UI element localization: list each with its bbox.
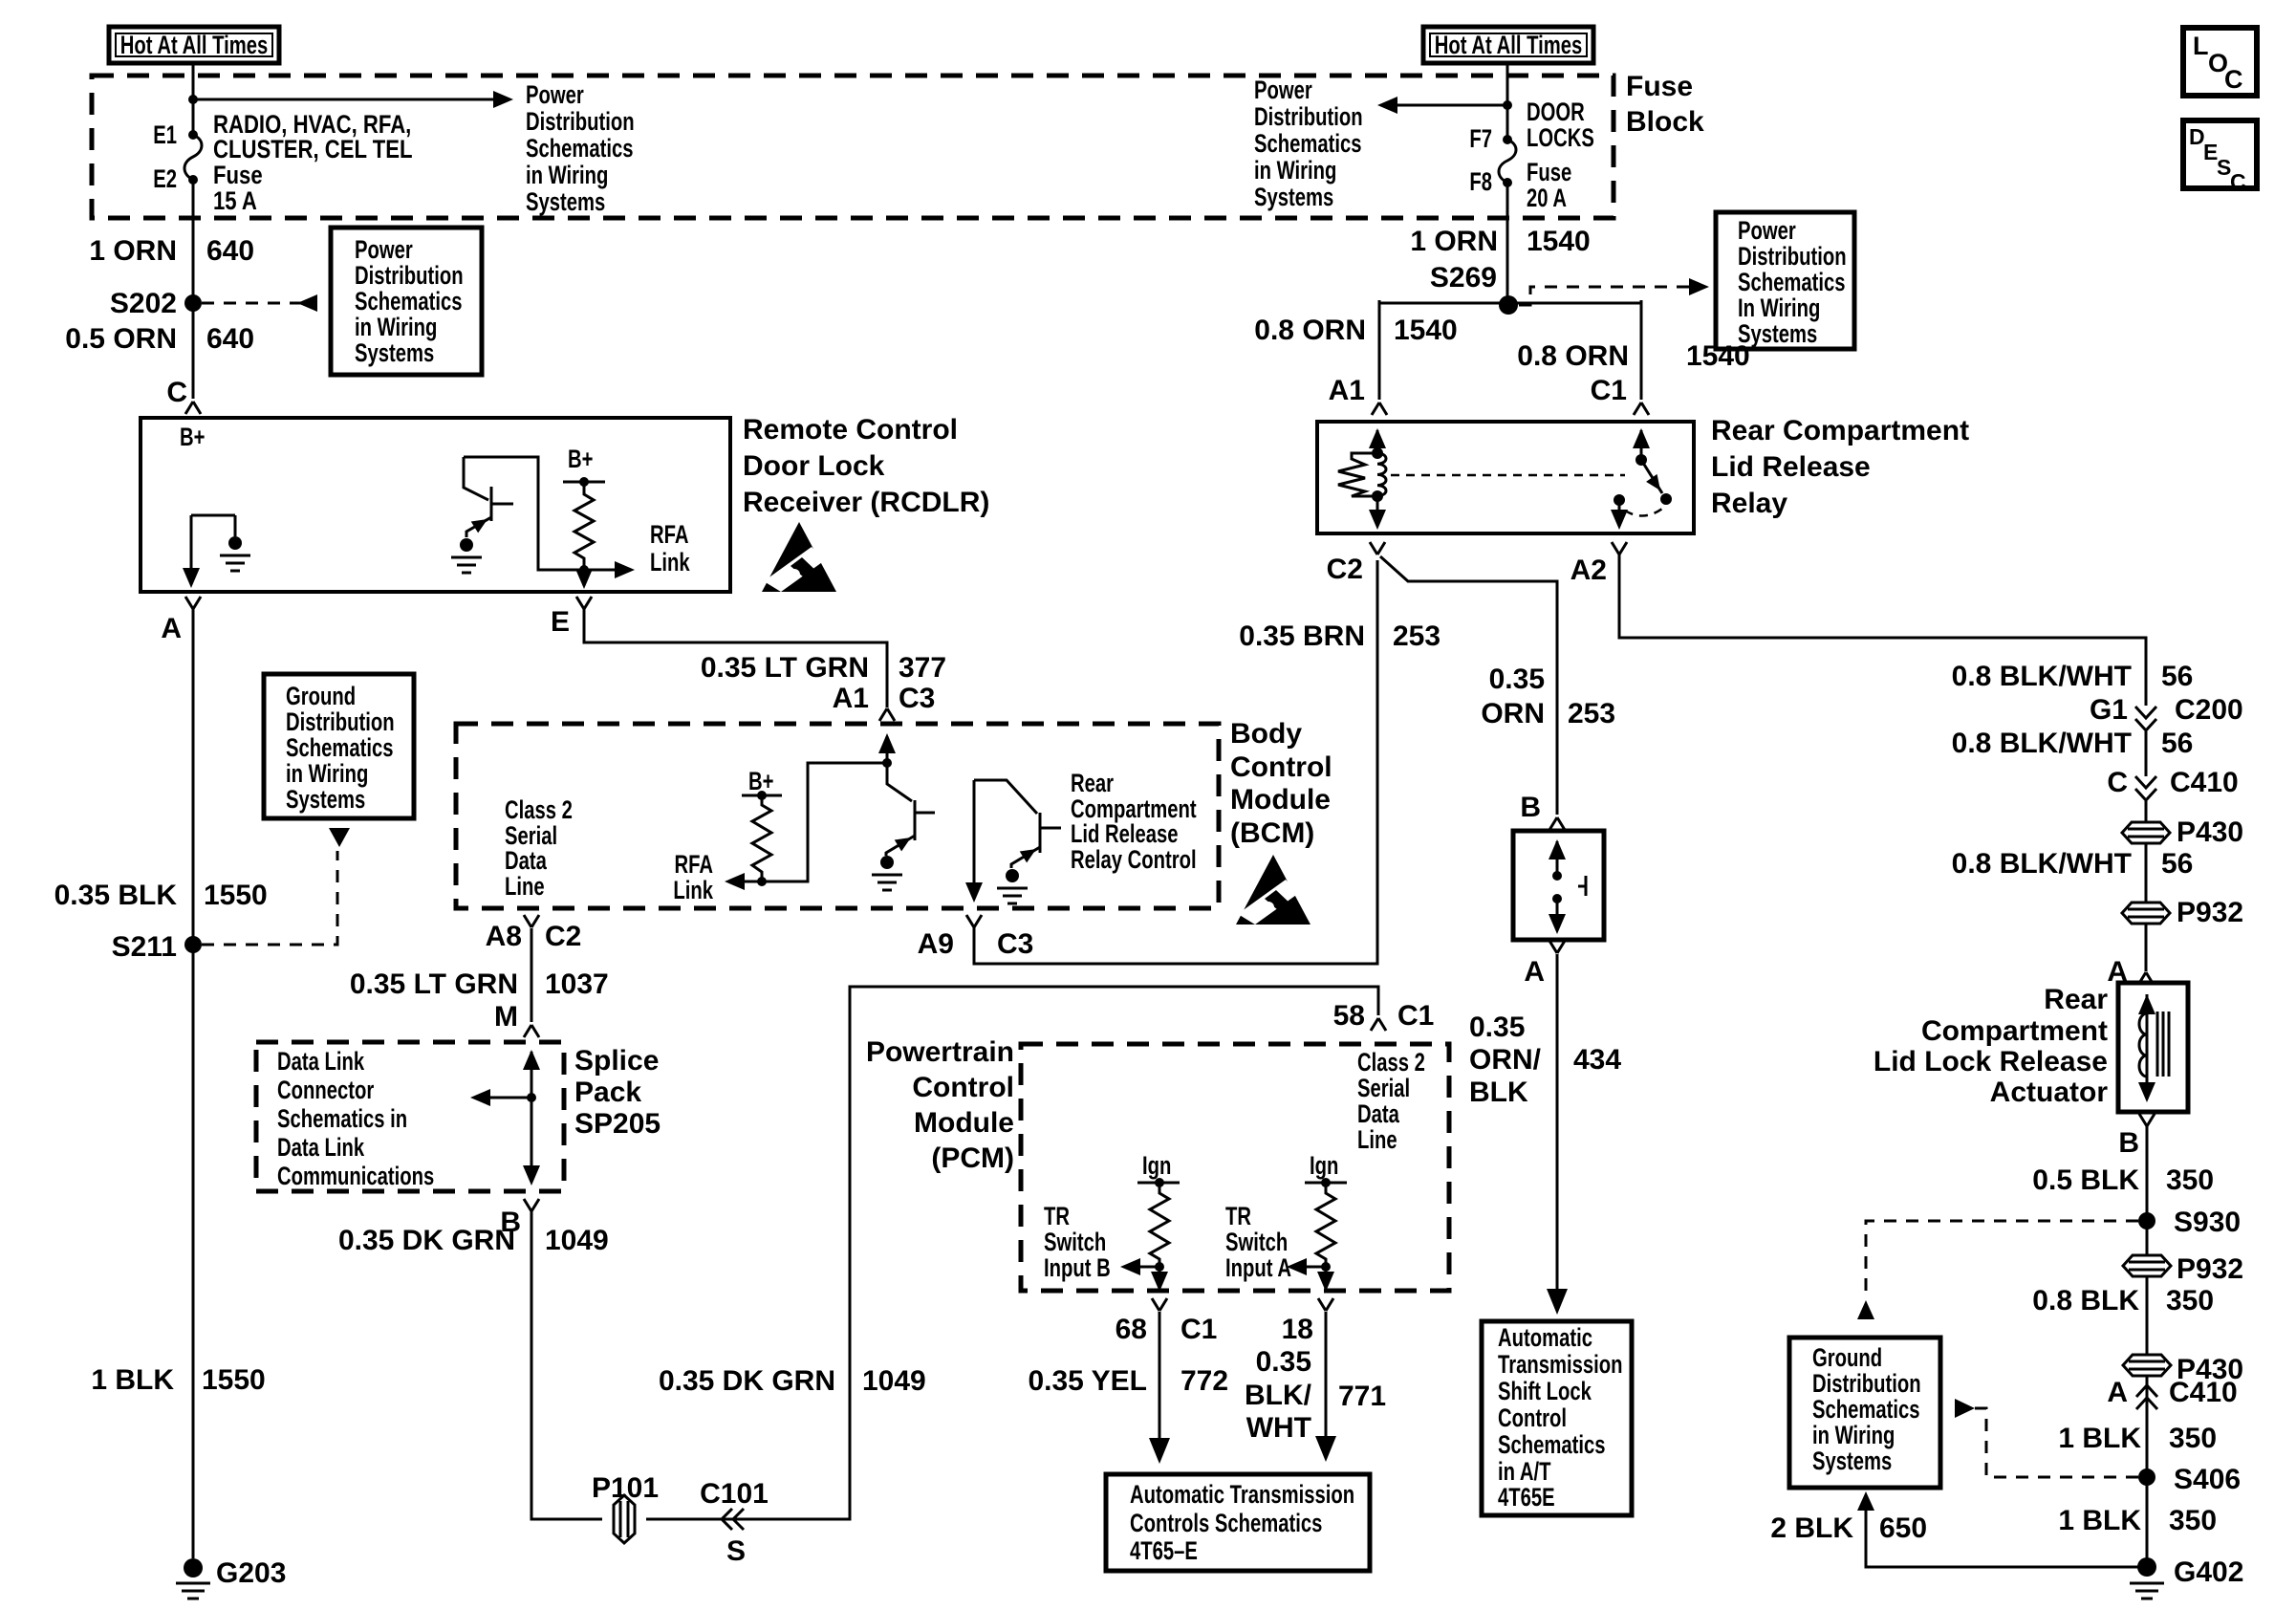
svg-text:1049: 1049 [545, 1225, 609, 1256]
svg-text:Schematics: Schematics [286, 733, 394, 763]
svg-text:Distribution: Distribution [1254, 102, 1363, 132]
svg-text:0.35: 0.35 [1256, 1346, 1311, 1378]
svg-text:Door Lock: Door Lock [743, 450, 885, 482]
svg-text:1540: 1540 [1394, 315, 1458, 346]
svg-text:A1: A1 [1329, 375, 1365, 406]
svg-text:Pack: Pack [574, 1077, 641, 1108]
svg-text:E: E [551, 606, 570, 638]
svg-text:Lid Release: Lid Release [1711, 451, 1871, 483]
svg-text:in Wiring: in Wiring [1254, 156, 1336, 185]
svg-text:1540: 1540 [1527, 226, 1591, 257]
svg-text:0.35: 0.35 [1469, 1012, 1525, 1043]
svg-text:S211: S211 [112, 931, 177, 963]
svg-text:Automatic Transmission: Automatic Transmission [1130, 1480, 1354, 1510]
svg-text:Schematics: Schematics [1498, 1430, 1606, 1460]
svg-text:0.8 BLK: 0.8 BLK [2032, 1285, 2139, 1316]
svg-text:56: 56 [2161, 728, 2193, 759]
svg-text:Communications: Communications [277, 1162, 434, 1191]
svg-text:4T65E: 4T65E [1498, 1483, 1555, 1512]
svg-text:S202: S202 [110, 288, 177, 319]
svg-text:LOCKS: LOCKS [1527, 123, 1594, 153]
svg-text:0.5 BLK: 0.5 BLK [2032, 1164, 2139, 1196]
svg-text:1037: 1037 [545, 968, 609, 1000]
svg-text:Class 2: Class 2 [505, 795, 573, 825]
svg-text:Schematics: Schematics [355, 287, 463, 316]
svg-text:P430: P430 [2177, 816, 2243, 848]
svg-text:Rear: Rear [1071, 769, 1114, 798]
svg-text:B: B [2118, 1127, 2139, 1159]
svg-text:BLK: BLK [1469, 1077, 1528, 1108]
svg-text:56: 56 [2161, 661, 2193, 692]
svg-text:C410: C410 [2170, 767, 2239, 798]
svg-text:1 BLK: 1 BLK [2058, 1505, 2141, 1536]
svg-text:in Wiring: in Wiring [1812, 1421, 1895, 1450]
svg-text:A: A [1524, 956, 1545, 988]
svg-text:B+: B+ [180, 423, 205, 452]
svg-text:BLK/: BLK/ [1245, 1380, 1312, 1411]
svg-text:350: 350 [2169, 1505, 2217, 1536]
svg-text:Lid Release: Lid Release [1071, 819, 1179, 849]
svg-text:B: B [1520, 792, 1541, 823]
svg-text:771: 771 [1338, 1381, 1386, 1412]
svg-text:Connector: Connector [277, 1076, 374, 1105]
svg-text:Hot At All Times: Hot At All Times [1435, 31, 1582, 60]
svg-text:0.35 YEL: 0.35 YEL [1028, 1365, 1147, 1397]
svg-text:1 BLK: 1 BLK [91, 1364, 174, 1396]
svg-text:0.35: 0.35 [1489, 664, 1545, 695]
svg-text:Ground: Ground [286, 682, 356, 711]
svg-text:Receiver (RCDLR): Receiver (RCDLR) [743, 487, 989, 518]
svg-text:Distribution: Distribution [526, 107, 635, 137]
svg-text:Systems: Systems [1254, 183, 1333, 212]
svg-text:ORN: ORN [1481, 698, 1545, 729]
svg-text:A8: A8 [486, 921, 522, 952]
svg-text:C3: C3 [997, 928, 1033, 960]
svg-text:350: 350 [2169, 1423, 2217, 1454]
svg-text:A: A [161, 613, 182, 644]
svg-text:C1: C1 [1180, 1314, 1217, 1345]
svg-text:Data: Data [1357, 1099, 1400, 1129]
svg-text:Power: Power [1254, 76, 1312, 105]
svg-text:(PCM): (PCM) [931, 1142, 1014, 1174]
svg-text:A: A [2107, 1377, 2128, 1408]
svg-text:Block: Block [1626, 106, 1704, 138]
svg-text:0.35 BRN: 0.35 BRN [1239, 620, 1365, 652]
svg-text:0.5 ORN: 0.5 ORN [65, 323, 177, 355]
svg-text:434: 434 [1573, 1044, 1621, 1076]
svg-text:0.35 LT GRN: 0.35 LT GRN [701, 652, 869, 684]
svg-text:In Wiring: In Wiring [1738, 294, 1820, 323]
svg-text:1049: 1049 [862, 1365, 926, 1397]
svg-text:SP205: SP205 [574, 1108, 661, 1140]
svg-text:Distribution: Distribution [1738, 242, 1847, 272]
svg-text:Data Link: Data Link [277, 1047, 365, 1077]
svg-text:S406: S406 [2174, 1464, 2241, 1495]
svg-text:in Wiring: in Wiring [355, 313, 437, 342]
svg-text:Data Link: Data Link [277, 1133, 365, 1163]
svg-text:640: 640 [206, 323, 254, 355]
svg-text:TR: TR [1044, 1202, 1070, 1231]
svg-text:Systems: Systems [526, 187, 605, 217]
svg-text:1550: 1550 [204, 880, 268, 911]
svg-text:Schematics: Schematics [1254, 129, 1362, 159]
svg-text:Fuse: Fuse [1626, 71, 1693, 102]
svg-text:20 A: 20 A [1527, 184, 1567, 213]
svg-text:Input A: Input A [1225, 1253, 1291, 1283]
svg-text:Hot At All Times: Hot At All Times [120, 31, 268, 60]
svg-text:L: L [2193, 32, 2209, 60]
svg-text:Automatic: Automatic [1498, 1323, 1592, 1353]
svg-text:Control: Control [1230, 751, 1332, 783]
svg-text:0.35 BLK: 0.35 BLK [54, 880, 178, 911]
svg-text:Control: Control [1498, 1403, 1567, 1433]
svg-text:1 BLK: 1 BLK [2058, 1423, 2141, 1454]
svg-text:Rear Compartment: Rear Compartment [1711, 415, 1969, 446]
svg-text:F8: F8 [1469, 167, 1492, 197]
svg-text:Systems: Systems [1812, 1447, 1892, 1476]
svg-text:0.8 ORN: 0.8 ORN [1254, 315, 1366, 346]
svg-text:0.8 ORN: 0.8 ORN [1517, 340, 1629, 372]
svg-text:Compartment: Compartment [1921, 1015, 2108, 1047]
svg-text:C: C [166, 377, 187, 408]
svg-text:C200: C200 [2175, 694, 2243, 726]
svg-text:2 BLK: 2 BLK [1770, 1512, 1853, 1544]
svg-text:Relay: Relay [1711, 488, 1787, 519]
svg-text:Line: Line [1357, 1125, 1397, 1155]
svg-text:A2: A2 [1570, 555, 1607, 586]
svg-text:Switch: Switch [1044, 1228, 1106, 1257]
svg-text:0.35 DK GRN: 0.35 DK GRN [338, 1225, 515, 1256]
svg-text:Fuse: Fuse [213, 162, 263, 190]
svg-text:in Wiring: in Wiring [286, 759, 368, 789]
svg-text:(BCM): (BCM) [1230, 817, 1314, 849]
svg-text:Schematics: Schematics [1812, 1395, 1920, 1425]
svg-text:G402: G402 [2174, 1556, 2243, 1588]
svg-text:0.8 BLK/WHT: 0.8 BLK/WHT [1952, 661, 2132, 692]
svg-text:Module: Module [1230, 784, 1331, 816]
svg-text:in Wiring: in Wiring [526, 161, 608, 190]
svg-text:C: C [2230, 169, 2246, 194]
svg-text:Remote Control: Remote Control [743, 414, 958, 446]
svg-text:Systems: Systems [286, 785, 365, 815]
svg-text:Schematics: Schematics [526, 134, 634, 163]
svg-text:56: 56 [2161, 848, 2193, 880]
svg-text:Serial: Serial [1357, 1074, 1410, 1103]
svg-text:Class 2: Class 2 [1357, 1048, 1425, 1077]
svg-text:WHT: WHT [1246, 1412, 1311, 1444]
svg-text:RFA: RFA [650, 520, 688, 550]
svg-text:Systems: Systems [355, 338, 434, 368]
svg-text:772: 772 [1180, 1365, 1228, 1397]
svg-text:C101: C101 [700, 1478, 769, 1510]
svg-text:0.35 LT GRN: 0.35 LT GRN [350, 968, 518, 1000]
svg-text:TR: TR [1225, 1202, 1251, 1231]
svg-text:P932: P932 [2177, 897, 2243, 928]
svg-text:58: 58 [1333, 1000, 1365, 1032]
svg-text:ORN/: ORN/ [1469, 1044, 1542, 1076]
svg-text:C1: C1 [1397, 1000, 1434, 1032]
svg-text:0.35 DK GRN: 0.35 DK GRN [659, 1365, 835, 1397]
svg-text:Link: Link [673, 876, 713, 905]
svg-text:E2: E2 [153, 164, 177, 194]
svg-text:1 ORN: 1 ORN [1410, 226, 1498, 257]
svg-text:Fuse: Fuse [1527, 158, 1571, 187]
svg-text:Transmission: Transmission [1498, 1350, 1623, 1380]
svg-text:Control: Control [912, 1072, 1014, 1103]
svg-text:Schematics in: Schematics in [277, 1104, 407, 1134]
svg-text:Data: Data [505, 846, 548, 876]
svg-text:Powertrain: Powertrain [866, 1036, 1014, 1068]
svg-text:1 ORN: 1 ORN [89, 235, 177, 267]
svg-text:Line: Line [505, 872, 545, 902]
svg-text:S930: S930 [2174, 1207, 2241, 1238]
svg-text:S269: S269 [1430, 262, 1497, 294]
svg-text:C2: C2 [545, 921, 581, 952]
svg-text:Rear: Rear [2044, 984, 2108, 1015]
svg-text:Distribution: Distribution [355, 261, 464, 291]
svg-text:F7: F7 [1469, 124, 1492, 154]
svg-text:Body: Body [1230, 718, 1302, 750]
svg-text:S: S [726, 1535, 746, 1567]
svg-text:CLUSTER, CEL TEL: CLUSTER, CEL TEL [213, 136, 413, 164]
svg-text:M: M [494, 1001, 518, 1033]
svg-text:4T65–E: 4T65–E [1130, 1536, 1198, 1566]
svg-text:15 A: 15 A [213, 187, 257, 216]
svg-text:Schematics: Schematics [1738, 268, 1846, 297]
svg-text:P932: P932 [2177, 1253, 2243, 1285]
svg-text:RFA: RFA [675, 850, 713, 880]
svg-text:Relay Control: Relay Control [1071, 845, 1197, 875]
svg-text:G203: G203 [216, 1557, 286, 1589]
svg-text:Switch: Switch [1225, 1228, 1288, 1257]
svg-text:C410: C410 [2169, 1377, 2238, 1408]
svg-text:0.8 BLK/WHT: 0.8 BLK/WHT [1952, 848, 2132, 880]
svg-text:Power: Power [1738, 216, 1796, 246]
svg-text:Power: Power [355, 235, 413, 265]
svg-text:Lid Lock Release: Lid Lock Release [1874, 1046, 2108, 1077]
svg-text:0.8 BLK/WHT: 0.8 BLK/WHT [1952, 728, 2132, 759]
svg-text:Shift Lock: Shift Lock [1498, 1377, 1592, 1406]
svg-text:A1: A1 [833, 683, 869, 714]
svg-text:Input B: Input B [1044, 1253, 1111, 1283]
svg-text:B+: B+ [568, 445, 593, 474]
svg-text:C2: C2 [1327, 554, 1363, 585]
svg-text:1540: 1540 [1686, 340, 1750, 372]
svg-text:1550: 1550 [202, 1364, 266, 1396]
svg-text:Link: Link [650, 548, 690, 577]
svg-text:Module: Module [914, 1107, 1014, 1139]
svg-text:Ground: Ground [1812, 1343, 1882, 1373]
svg-text:P101: P101 [592, 1472, 659, 1504]
svg-text:18: 18 [1282, 1314, 1313, 1345]
svg-text:C: C [2224, 65, 2243, 94]
svg-text:650: 650 [1879, 1512, 1927, 1544]
svg-text:A9: A9 [918, 928, 954, 960]
svg-text:68: 68 [1116, 1314, 1147, 1345]
svg-text:G1: G1 [2090, 694, 2128, 726]
svg-text:C3: C3 [899, 683, 935, 714]
svg-text:Ign: Ign [1310, 1151, 1338, 1181]
svg-text:C1: C1 [1591, 375, 1627, 406]
svg-text:Controls Schematics: Controls Schematics [1130, 1509, 1322, 1538]
svg-text:350: 350 [2166, 1164, 2214, 1196]
svg-text:Distribution: Distribution [286, 707, 395, 737]
svg-text:Splice: Splice [574, 1045, 659, 1077]
svg-text:Actuator: Actuator [1990, 1077, 2109, 1108]
svg-text:E1: E1 [153, 120, 177, 150]
svg-text:640: 640 [206, 235, 254, 267]
svg-text:C: C [2107, 767, 2128, 798]
svg-text:350: 350 [2166, 1285, 2214, 1316]
svg-text:Distribution: Distribution [1812, 1369, 1921, 1399]
svg-text:253: 253 [1393, 620, 1440, 652]
svg-text:Power: Power [526, 80, 584, 110]
svg-text:Ign: Ign [1142, 1151, 1171, 1181]
svg-text:DOOR: DOOR [1527, 98, 1585, 127]
svg-text:253: 253 [1568, 698, 1615, 729]
svg-text:377: 377 [899, 652, 946, 684]
svg-text:in A/T: in A/T [1498, 1457, 1551, 1487]
